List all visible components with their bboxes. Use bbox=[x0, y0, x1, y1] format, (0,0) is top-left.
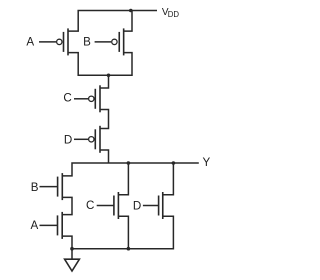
wire: pmos A source lead, up to VDD rail, rail to VDD label bbox=[68, 11, 157, 32]
svg-text:A: A bbox=[31, 219, 39, 232]
node: dot output rail to nmos D bbox=[172, 161, 176, 165]
wire: pmos C drain lead down to pmos D source lead bbox=[100, 110, 109, 129]
nmos D: gate bar bbox=[158, 196, 160, 216]
nmos A: channel bbox=[61, 212, 63, 239]
svg-text:B: B bbox=[31, 181, 39, 194]
pmos C: gate bubble bbox=[89, 96, 94, 101]
pmos B: channel bbox=[123, 28, 125, 55]
svg-text:Y: Y bbox=[203, 156, 211, 169]
pmos B: gate wire bbox=[95, 41, 112, 43]
label VDD bbox=[162, 7, 179, 19]
wire: nmos C source lead down to ground rail bbox=[118, 216, 128, 248]
wire: nmos D drain lead up to output rail bbox=[163, 163, 174, 195]
wire: ground stem bbox=[71, 249, 73, 260]
node: dot nmos C source on ground rail bbox=[127, 247, 131, 251]
pmos B: gate bar bbox=[118, 32, 120, 52]
pmos A: gate wire bbox=[39, 41, 56, 43]
wire: output rail Y from nmos B drain lead bbox=[62, 163, 199, 176]
pmos D: gate bar bbox=[94, 129, 96, 149]
node: dot output rail to nmos C bbox=[127, 161, 131, 165]
svg-text:C: C bbox=[63, 91, 71, 104]
svg-text:DD: DD bbox=[168, 10, 180, 19]
wire: pmos D drain lead down to output rail bbox=[100, 150, 109, 163]
wire: nmos B source lead down to nmos A drain lead bbox=[62, 197, 72, 214]
svg-text:A: A bbox=[26, 36, 34, 49]
wire: nmos C drain lead up to output rail bbox=[118, 163, 128, 195]
svg-text:B: B bbox=[83, 36, 91, 49]
nmos C: gate wire bbox=[97, 205, 114, 207]
nmos D: channel bbox=[162, 192, 164, 219]
nmos A: gate wire bbox=[40, 224, 58, 226]
nmos B: gate bar bbox=[57, 177, 59, 197]
pmos C: gate wire bbox=[74, 98, 88, 100]
pmos D: gate bubble bbox=[89, 137, 94, 142]
pmos C: channel bbox=[99, 85, 101, 112]
nmos D: gate wire bbox=[143, 205, 159, 207]
pmos C: gate bar bbox=[94, 89, 96, 109]
nmos C: gate bar bbox=[113, 196, 115, 216]
node: dot ground tap bbox=[70, 247, 74, 251]
node: VDD junction dot bbox=[129, 9, 133, 13]
wire: nmos A source lead down to ground rail bbox=[62, 236, 72, 249]
node: junction dot on A-B drain rail bbox=[107, 73, 111, 77]
svg-text:D: D bbox=[64, 134, 72, 147]
pmos A: channel bbox=[67, 28, 69, 55]
pmos A: gate bubble bbox=[57, 39, 62, 44]
nmos B: gate wire bbox=[40, 186, 58, 188]
pmos D: channel bbox=[99, 126, 101, 153]
pmos A: gate bar bbox=[63, 32, 65, 52]
svg-text:D: D bbox=[133, 200, 141, 213]
nmos A: gate bar bbox=[57, 215, 59, 235]
pmos D: gate wire bbox=[74, 138, 88, 140]
wire: down from A-B rail junction to pmos C source lead bbox=[100, 75, 109, 88]
pmos B: gate bubble bbox=[112, 39, 117, 44]
svg-text:C: C bbox=[86, 199, 94, 212]
nmos B: channel bbox=[61, 173, 63, 200]
wire: ground rail across to nmos D source lead bbox=[72, 216, 173, 248]
wire: pmos A drain lead down to common rail, across to pmos B drain lead bbox=[68, 53, 132, 76]
nmos C: channel bbox=[117, 192, 119, 219]
wire: pmos B source lead up to VDD rail bbox=[124, 11, 132, 32]
ground symbol bbox=[65, 259, 80, 271]
